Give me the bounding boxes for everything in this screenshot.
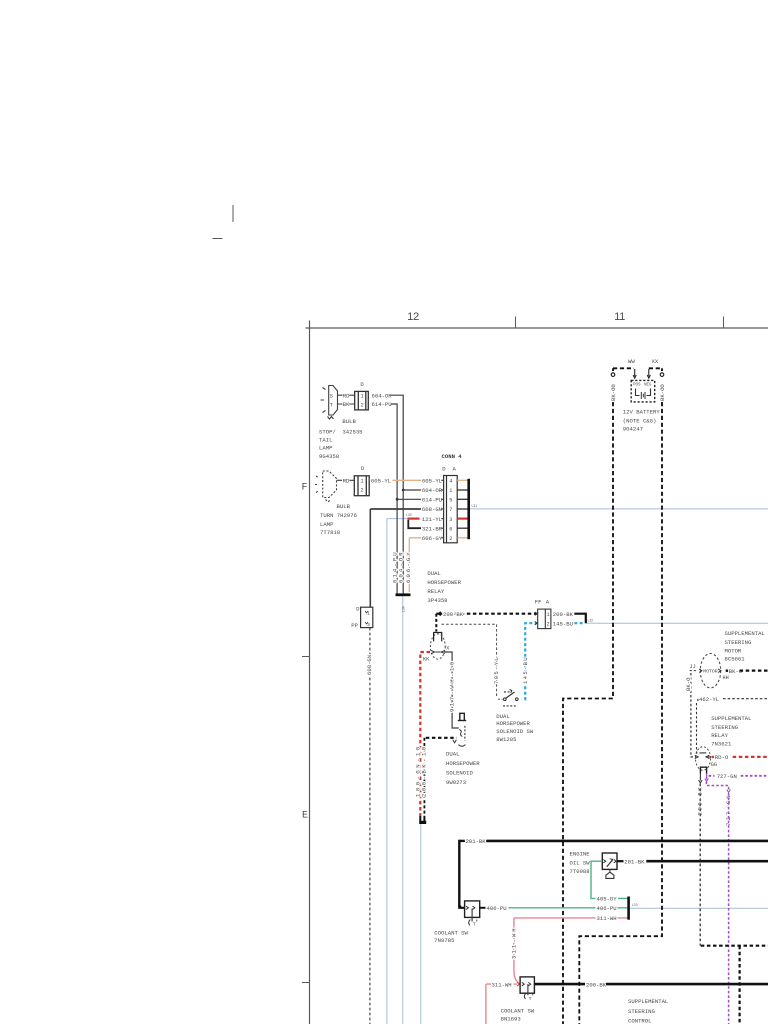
svg-text:D: D (360, 381, 364, 388)
svg-text:7: 7 (449, 507, 452, 513)
svg-text:1: 1 (547, 612, 550, 618)
svg-text:5: 5 (449, 498, 452, 504)
svg-text:7N9785: 7N9785 (434, 937, 454, 944)
svg-text:SUPPLEMENTAL: SUPPLEMENTAL (628, 998, 668, 1005)
svg-text:406-PU: 406-PU (597, 905, 617, 912)
svg-text:RD: RD (343, 392, 350, 399)
svg-text:605-YL: 605-YL (371, 477, 391, 484)
svg-text:STEERING: STEERING (628, 1008, 655, 1015)
svg-text:E: E (302, 811, 308, 822)
svg-text:200-BK: 200-BK (586, 981, 607, 988)
svg-text:BK: BK (343, 401, 350, 408)
svg-text:DUAL: DUAL (427, 570, 440, 577)
svg-text:TAIL: TAIL (319, 437, 332, 444)
svg-text:STOP/: STOP/ (319, 429, 336, 436)
svg-text:2: 2 (360, 488, 363, 494)
svg-text:BK-OO: BK-OO (659, 384, 666, 401)
svg-text:SOLENOID SW: SOLENOID SW (496, 728, 534, 735)
svg-text:FF: FF (535, 599, 542, 606)
svg-text:1: 1 (360, 478, 363, 484)
svg-text:TURN 7H2976: TURN 7H2976 (320, 512, 357, 519)
svg-text:HH: HH (723, 675, 729, 681)
svg-text:KK: KK (423, 657, 430, 663)
svg-text:201-BK: 201-BK (466, 838, 487, 845)
svg-text:7T7818: 7T7818 (320, 529, 340, 536)
svg-text:311-WH: 311-WH (492, 981, 512, 988)
svg-text:HORSEPOWER: HORSEPOWER (446, 760, 480, 767)
svg-text:606-GY: 606-GY (405, 550, 412, 583)
svg-text:200-BK-10: 200-BK-10 (420, 744, 427, 797)
svg-text:DUAL: DUAL (446, 751, 459, 758)
svg-text:1: 1 (449, 488, 452, 494)
svg-text:F: F (301, 483, 307, 494)
svg-text:RD-O: RD-O (715, 754, 729, 761)
svg-text:A: A (546, 599, 550, 606)
svg-text:HORSEPOWER: HORSEPOWER (496, 720, 530, 727)
svg-text:7N3621: 7N3621 (711, 740, 732, 747)
svg-text:COOLANT SW: COOLANT SW (434, 930, 468, 937)
svg-text:A: A (453, 465, 457, 472)
svg-text:608-GN: 608-GN (422, 506, 442, 513)
svg-text:121-YL: 121-YL (422, 516, 442, 523)
svg-text:SUPPLEMENTAL: SUPPLEMENTAL (725, 630, 765, 637)
svg-text:11: 11 (614, 311, 625, 323)
svg-text:ENGINE: ENGINE (570, 850, 591, 857)
svg-text:604-OR: 604-OR (422, 487, 443, 494)
svg-text:D: D (361, 465, 365, 472)
svg-text:614-PU: 614-PU (372, 401, 392, 408)
svg-text:311-WH: 311-WH (597, 915, 617, 922)
svg-text:406-PU: 406-PU (487, 905, 507, 912)
svg-text:D: D (442, 465, 446, 472)
svg-text:9G4247: 9G4247 (623, 425, 643, 432)
svg-text:LAMP: LAMP (320, 521, 334, 528)
svg-text:S: S (330, 394, 333, 400)
svg-text:PP: PP (351, 622, 358, 629)
svg-text:145-BU: 145-BU (553, 620, 573, 627)
svg-text:NEG: NEG (644, 383, 652, 387)
svg-text:MOTOR: MOTOR (725, 647, 742, 654)
svg-text:BK-O: BK-O (685, 677, 692, 691)
svg-text:L34: L34 (401, 606, 405, 612)
svg-text:605-YL: 605-YL (422, 478, 442, 485)
svg-text:795-YL: 795-YL (493, 656, 500, 684)
svg-text:X: X (446, 646, 450, 652)
svg-text:BULB: BULB (337, 503, 351, 510)
svg-text:XX: XX (652, 358, 659, 365)
svg-text:9G4358: 9G4358 (319, 453, 339, 460)
svg-text:3P4358: 3P4358 (427, 597, 447, 604)
svg-text:2: 2 (360, 402, 363, 408)
svg-text:L33: L33 (632, 903, 638, 907)
svg-text:HORSEPOWER: HORSEPOWER (427, 579, 461, 586)
svg-text:T: T (529, 996, 532, 1002)
svg-text:12: 12 (407, 311, 419, 323)
svg-text:L32: L32 (588, 619, 594, 623)
svg-text:RD: RD (343, 478, 350, 485)
svg-text:3: 3 (449, 517, 452, 523)
svg-text:MOTOR: MOTOR (703, 669, 718, 675)
svg-text:8W1285: 8W1285 (496, 736, 516, 743)
svg-text:(NOTE C&G): (NOTE C&G) (623, 417, 657, 424)
svg-text:311-WH: 311-WH (510, 926, 517, 959)
svg-text:608-GN: 608-GN (366, 655, 373, 675)
svg-text:L30: L30 (406, 513, 412, 517)
svg-text:D: D (356, 606, 360, 613)
svg-text:SOLENOID: SOLENOID (446, 770, 473, 777)
svg-text:L31: L31 (472, 504, 478, 508)
svg-text:201-BK: 201-BK (624, 858, 645, 865)
svg-text:342535: 342535 (342, 429, 362, 436)
svg-text:WW: WW (628, 358, 635, 365)
svg-text:COOLANT SW: COOLANT SW (501, 1008, 535, 1015)
svg-text:CONN 4: CONN 4 (442, 453, 463, 460)
svg-text:727-GN: 727-GN (717, 773, 737, 780)
svg-text:917-WH-10: 917-WH-10 (448, 659, 455, 712)
svg-text:2: 2 (449, 536, 452, 542)
svg-text:462-YL: 462-YL (699, 696, 719, 703)
svg-text:200-BK: 200-BK (553, 611, 574, 618)
svg-text:SUPPLEMENTAL: SUPPLEMENTAL (711, 715, 751, 722)
svg-text:RELAY: RELAY (427, 588, 444, 595)
svg-text:T: T (330, 403, 333, 409)
svg-text:12V BATTERY: 12V BATTERY (623, 409, 661, 416)
svg-text:T: T (473, 922, 476, 928)
svg-text:DUAL: DUAL (496, 713, 509, 720)
svg-text:8C5661: 8C5661 (725, 656, 746, 663)
svg-text:614-PU: 614-PU (422, 497, 442, 504)
svg-text:BULB: BULB (342, 418, 356, 425)
svg-text:145-BU: 145-BU (522, 656, 529, 684)
svg-text:LAMP: LAMP (319, 445, 333, 452)
svg-text:9W0273: 9W0273 (446, 779, 466, 786)
svg-text:OIL SW: OIL SW (570, 859, 591, 866)
svg-text:2: 2 (547, 621, 550, 627)
svg-text:BK-OO: BK-OO (610, 384, 617, 401)
svg-text:321-BR: 321-BR (422, 525, 443, 532)
svg-text:JJ: JJ (690, 664, 696, 670)
svg-text:RELAY: RELAY (711, 732, 728, 739)
svg-text:604-OR: 604-OR (372, 392, 393, 399)
svg-text:8N1693: 8N1693 (501, 1016, 521, 1023)
svg-text:7T0988: 7T0988 (570, 868, 590, 875)
svg-text:6: 6 (449, 526, 452, 532)
svg-text:STEERING: STEERING (711, 724, 738, 731)
svg-text:GG: GG (711, 762, 717, 768)
svg-text:604-OR: 604-OR (398, 550, 405, 583)
svg-text:STEERING: STEERING (725, 639, 752, 646)
svg-text:CONTROL: CONTROL (628, 1018, 652, 1024)
svg-text:POS: POS (633, 383, 641, 387)
svg-text:606-GY: 606-GY (422, 535, 443, 542)
svg-text:4: 4 (449, 479, 452, 485)
svg-text:405-GY: 405-GY (597, 896, 618, 903)
svg-text:1: 1 (360, 393, 363, 399)
svg-text:200-BK: 200-BK (443, 611, 464, 618)
